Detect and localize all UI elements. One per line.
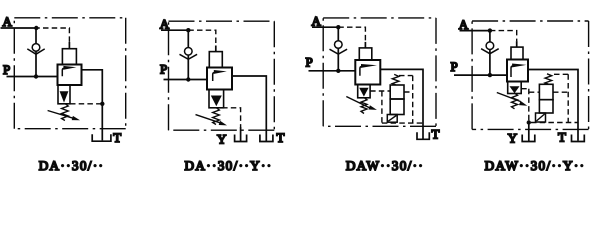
svg-text:P: P [306, 55, 313, 70]
svg-text:A: A [312, 13, 322, 28]
svg-text:P: P [451, 59, 458, 74]
svg-text:DAW··30/··: DAW··30/·· [346, 158, 424, 173]
svg-text:DA··30/··Y··: DA··30/··Y·· [185, 158, 273, 173]
svg-text:T: T [558, 130, 566, 145]
svg-text:Y: Y [217, 132, 227, 147]
svg-text:A: A [3, 14, 13, 29]
svg-text:DAW··30/··Y··: DAW··30/··Y·· [485, 158, 586, 173]
svg-text:T: T [432, 126, 440, 141]
svg-text:P: P [3, 62, 10, 77]
svg-text:DA··30/··: DA··30/·· [39, 158, 105, 173]
svg-text:A: A [459, 17, 469, 32]
svg-text:Y: Y [508, 130, 518, 145]
svg-text:T: T [277, 130, 285, 145]
svg-text:A: A [160, 17, 170, 32]
svg-text:T: T [113, 130, 121, 145]
svg-text:P: P [160, 62, 167, 77]
